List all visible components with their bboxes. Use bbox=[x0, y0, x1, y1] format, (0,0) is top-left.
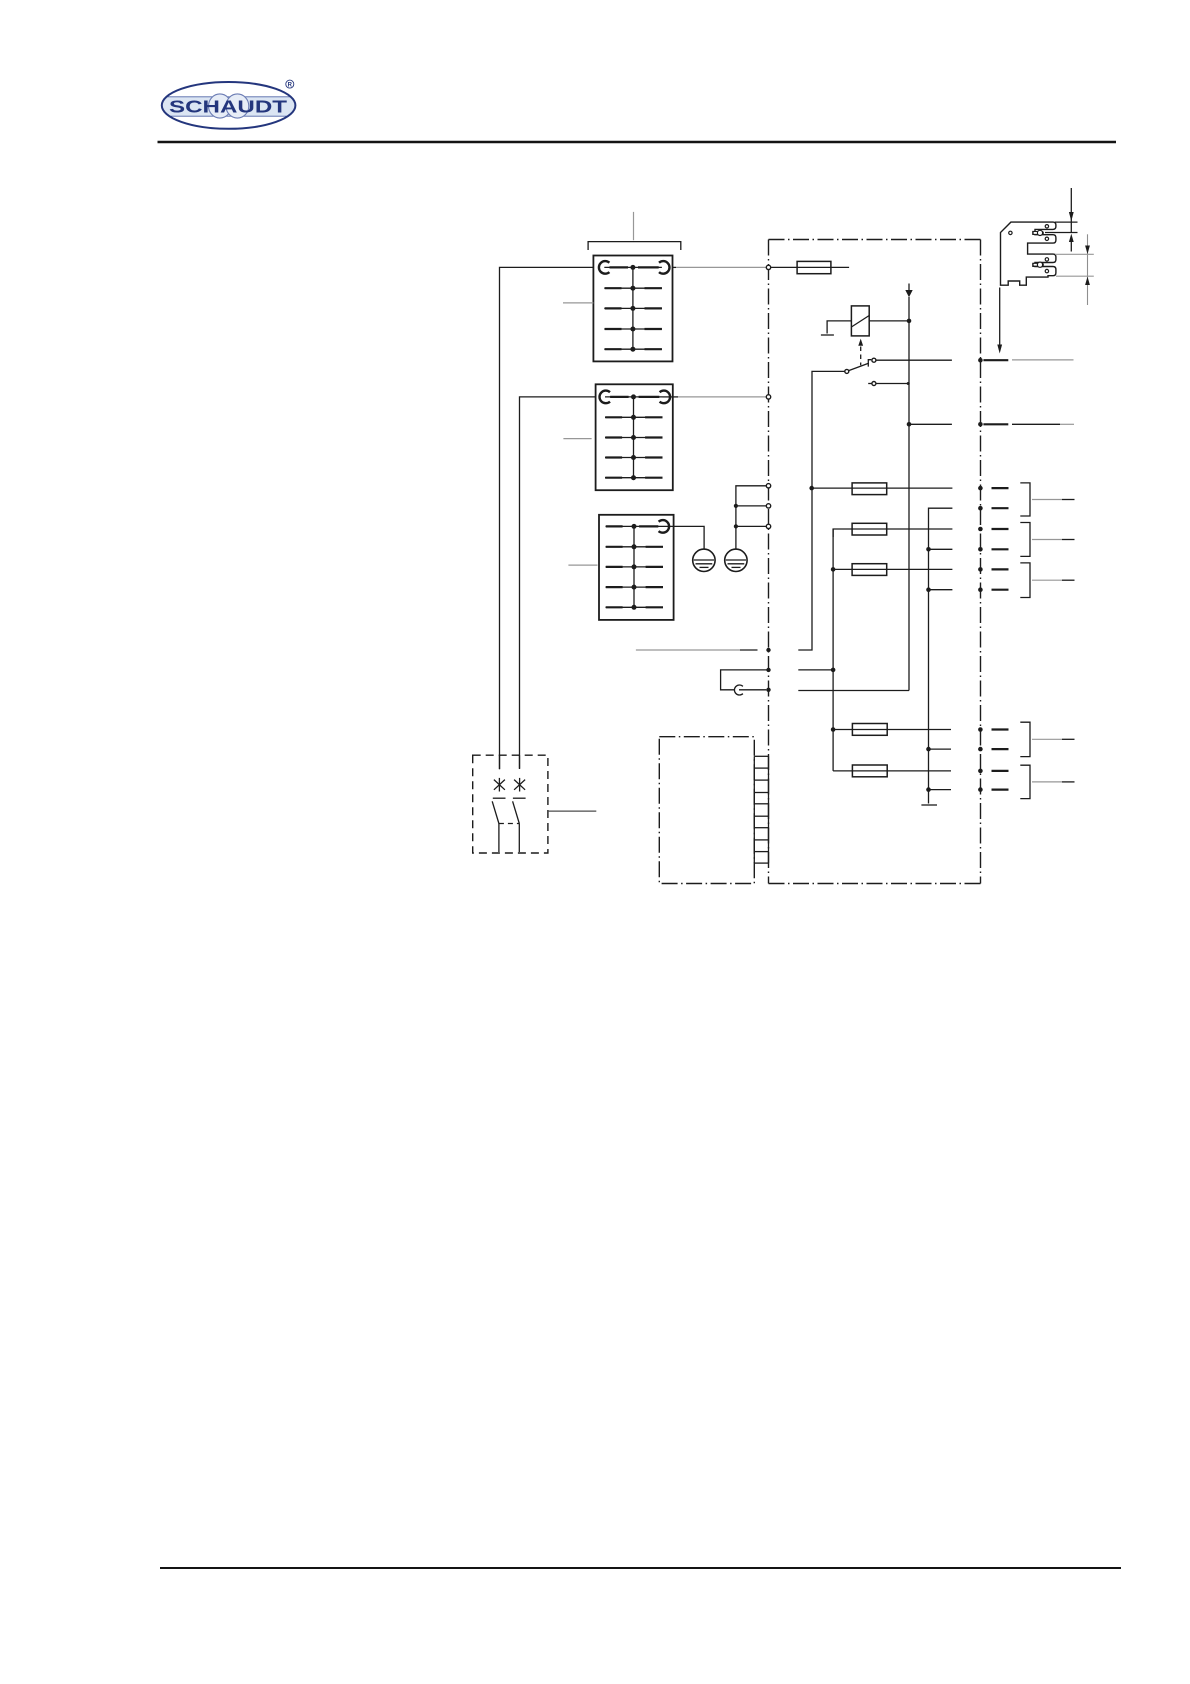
lamp block X3 row 4 bbox=[606, 585, 664, 590]
switch S1 pole 1 contact bbox=[492, 798, 505, 852]
connector annotation arrow to terminal D+ bbox=[997, 288, 1002, 354]
wire lamp block X1 to battery switch bbox=[500, 267, 594, 769]
fuse F2 bbox=[812, 483, 953, 495]
junction minus node 10 bbox=[926, 787, 931, 792]
minus column wire bbox=[929, 508, 953, 803]
footer rule bbox=[160, 1567, 1121, 1569]
fuse F5 bbox=[833, 724, 951, 736]
lamp block X1 row 4 bbox=[604, 327, 662, 332]
protective earth symbol 1 bbox=[693, 549, 715, 571]
dimension line pair spacing bbox=[1085, 234, 1090, 305]
terminal circle earth 1 bbox=[766, 484, 770, 488]
control panel enclosure bbox=[659, 737, 754, 884]
svg-text:SCHAUDT: SCHAUDT bbox=[169, 97, 287, 117]
lamp block X1 row 5 bbox=[604, 347, 662, 352]
wire lamp block X2 to battery switch bbox=[520, 397, 596, 769]
junction minus node 6 bbox=[926, 587, 931, 592]
lamp block X1 common bus bbox=[632, 267, 634, 349]
dimension extension line 2 bbox=[1045, 232, 1078, 234]
wire lamp block X2 to EBL terminal bbox=[663, 396, 679, 398]
output terminal 2 bbox=[978, 506, 1008, 511]
switch S1 pole 2 contact bbox=[513, 798, 526, 852]
group bracket outputs 1-2 bbox=[1020, 483, 1074, 516]
group bracket outputs 5-6 bbox=[1020, 563, 1074, 598]
relay K1 coil bbox=[851, 306, 869, 336]
output terminal 5 bbox=[978, 567, 1008, 572]
group bracket outputs 3-4 bbox=[1020, 523, 1074, 557]
jumper loop terminals 13-14 bbox=[721, 668, 771, 695]
wire S2 common down bbox=[798, 371, 845, 650]
relay actuator link bbox=[858, 339, 863, 366]
terminal circle block X1 input bbox=[766, 265, 770, 269]
output terminal 7 bbox=[978, 727, 1008, 732]
flat plug connector detail drawing bbox=[1001, 222, 1056, 285]
output terminal 1 bbox=[978, 486, 1008, 491]
lamp block X1 body bbox=[593, 256, 672, 362]
lamp block X2 row 2 bbox=[605, 415, 663, 420]
lamp block X1 row 1 with socket contacts bbox=[599, 261, 670, 274]
stub earth terminal 2 bbox=[736, 505, 767, 507]
wire S2 NO contact to output bbox=[876, 359, 952, 361]
dimension arrow blade pitch bottom bbox=[1069, 234, 1074, 252]
wire EBL terminal row pin 12 bbox=[636, 648, 771, 652]
relay switch S2 lever bbox=[845, 360, 872, 374]
label leader lamp block X1 bbox=[563, 302, 593, 304]
junction minus node 4 bbox=[926, 547, 931, 552]
fuse F1 bbox=[771, 261, 849, 273]
electroblock EBL enclosure left border bbox=[768, 240, 770, 884]
output terminal 15 bbox=[978, 422, 1074, 427]
lamp block X2 row 3 bbox=[605, 435, 663, 440]
lamp block X3 row 1 with socket contact bbox=[606, 520, 670, 533]
junction F2 tap bbox=[809, 486, 814, 491]
junction column fuse F5 bbox=[831, 727, 836, 732]
lamp block X1 row 2 bbox=[604, 286, 662, 291]
electroblock EBL enclosure bottom border bbox=[769, 883, 981, 885]
junction column terminal 13 bbox=[831, 668, 836, 673]
dimension arrow blade pitch top bbox=[1069, 188, 1074, 233]
lamp block X1 row 3 bbox=[604, 306, 662, 311]
junction earth wire node a bbox=[734, 504, 738, 508]
fuse F3 bbox=[833, 523, 952, 537]
protective earth symbol 2 bbox=[725, 549, 747, 571]
lamp block X2 row 4 bbox=[605, 455, 663, 460]
Schaudt logo bbox=[160, 80, 298, 129]
grouping bracket above lamp block X1 bbox=[588, 242, 681, 250]
output terminal 10 bbox=[978, 787, 1008, 792]
distribution column wire bbox=[832, 529, 834, 771]
wire S2 NC contact to bus bbox=[876, 382, 910, 385]
fuse F4 bbox=[833, 564, 953, 576]
label leader lamp block X2 bbox=[563, 438, 591, 440]
lamp block X2 common bus bbox=[633, 397, 635, 478]
label leader switch S1 bbox=[548, 810, 596, 812]
terminal circle block X2 input bbox=[766, 395, 770, 399]
wire minus terminal 6 bbox=[929, 589, 953, 591]
electroblock EBL enclosure right border bbox=[980, 240, 982, 884]
lamp block X3 row 3 bbox=[606, 564, 664, 569]
wire minus terminal 4 bbox=[929, 548, 953, 550]
wire relay coil to bus bbox=[869, 320, 909, 322]
switch S1 pole 1 release cross bbox=[494, 755, 505, 791]
leader line above lamp block X1 bbox=[633, 212, 635, 240]
stub earth terminal 3 bbox=[736, 525, 767, 527]
junction F4 tap bbox=[831, 567, 836, 572]
lamp block X3 body bbox=[599, 515, 674, 620]
output terminal 6 bbox=[978, 587, 1008, 592]
junction bus relay bbox=[907, 319, 912, 324]
multipin connector ladder panel to EBL bbox=[754, 756, 768, 863]
lamp block X3 row 5 bbox=[606, 605, 664, 610]
output terminal 8 bbox=[978, 747, 1008, 752]
output terminal D+ bbox=[978, 358, 1073, 363]
junction minus node 8 bbox=[926, 747, 931, 752]
lamp block X3 row 2 bbox=[606, 544, 664, 549]
output terminal 4 bbox=[978, 547, 1008, 552]
electroblock EBL enclosure top border bbox=[769, 239, 981, 241]
relay switch S2 NC contact bbox=[868, 382, 876, 386]
wire terminal 14 to bus bbox=[798, 690, 909, 692]
dimension extension line 1 bbox=[1055, 221, 1078, 223]
junction earth wire node b bbox=[734, 524, 738, 528]
supply bus arrow bbox=[905, 284, 912, 298]
battery cut-off switch S1 enclosure bbox=[473, 755, 548, 853]
wire minus terminal 8 bbox=[929, 748, 952, 750]
group bracket outputs 9-10 bbox=[1020, 765, 1074, 798]
relay switch S2 NO contact bbox=[872, 358, 876, 362]
terminal circle earth 3 bbox=[766, 524, 770, 528]
lamp block X2 row 1 with socket contacts bbox=[600, 391, 671, 404]
terminal circle earth 2 bbox=[766, 504, 770, 508]
group bracket outputs 7-8 bbox=[1020, 722, 1074, 756]
wire terminal 13 to fuse column bbox=[798, 669, 833, 671]
label leader lamp block X3 bbox=[568, 564, 597, 566]
output terminal 9 bbox=[978, 769, 1008, 774]
header rule bbox=[158, 141, 1117, 144]
fuse F6 bbox=[833, 765, 951, 777]
wire lamp block X1 to EBL terminal bbox=[673, 266, 677, 268]
lamp block X2 body bbox=[596, 384, 673, 490]
wire bus tap output 2 bbox=[907, 422, 952, 427]
switch S1 pole 2 release cross bbox=[514, 755, 525, 791]
lamp block X3 common bus bbox=[633, 526, 635, 607]
wire minus terminal 10 bbox=[929, 789, 952, 791]
supply bus line bbox=[908, 297, 910, 691]
output terminal 3 bbox=[978, 527, 1008, 532]
ground bar internal bbox=[921, 804, 937, 806]
switch S1 mechanical link bbox=[499, 823, 519, 825]
wire earth terminals to earth symbol 2 bbox=[736, 486, 767, 549]
dimension extension line 3 bbox=[1055, 253, 1094, 255]
svg-text:R: R bbox=[288, 83, 293, 89]
wire relay coil to ground bbox=[827, 321, 851, 334]
dimension extension line 4 bbox=[1056, 275, 1094, 277]
wire lamp block X3 to earth symbol bbox=[662, 526, 704, 549]
lamp block X2 row 5 bbox=[605, 475, 663, 480]
ground bar relay bbox=[821, 334, 834, 336]
